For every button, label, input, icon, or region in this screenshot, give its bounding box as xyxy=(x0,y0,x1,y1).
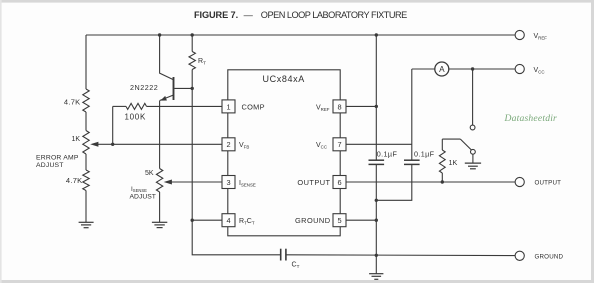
svg-text:4: 4 xyxy=(226,216,230,225)
wire pin 5 to V1 xyxy=(346,219,376,221)
svg-text:4.7K: 4.7K xyxy=(64,98,81,107)
switch S1 xyxy=(442,125,475,154)
svg-text:VREF: VREF xyxy=(316,104,330,112)
wire CT right to ground terminal xyxy=(286,254,515,257)
resistor R2 4.7K lower xyxy=(66,170,89,191)
svg-text:0.1µF: 0.1µF xyxy=(414,150,435,159)
resistor R1 4.7K upper xyxy=(64,89,89,112)
wire V1 upper xyxy=(375,35,377,160)
pin 6 box xyxy=(297,176,346,189)
svg-text:1: 1 xyxy=(226,102,230,111)
ground switch xyxy=(465,163,481,169)
svg-text:ISENSE: ISENSE xyxy=(239,180,256,188)
svg-text:FIGURE 7.: FIGURE 7. xyxy=(194,10,238,20)
wire switch lower to ground xyxy=(472,154,474,163)
wire VFB line to pin 2 xyxy=(113,143,222,145)
pin 8 box xyxy=(316,100,346,113)
node pin8-V1 junction xyxy=(375,105,378,108)
capacitor C1 0.1uF xyxy=(369,150,398,165)
svg-text:—: — xyxy=(244,10,254,20)
svg-text:5: 5 xyxy=(337,216,341,225)
transistor Q1 2N2222 xyxy=(130,77,174,101)
svg-text:VCC: VCC xyxy=(534,67,545,75)
svg-text:OPEN LOOP LABORATORY FIXTURE: OPEN LOOP LABORATORY FIXTURE xyxy=(261,10,407,20)
wire collector vertical xyxy=(160,35,174,80)
wire pin 8 to V1 xyxy=(346,105,376,107)
wire switch vertical xyxy=(472,69,474,125)
wire pin4 RTCT line xyxy=(192,219,222,221)
terminal VREF xyxy=(515,30,547,40)
svg-text:2N2222: 2N2222 xyxy=(130,83,158,92)
capacitor CT xyxy=(281,249,300,269)
wire 5K to ground xyxy=(159,192,161,222)
resistor R4 1K load xyxy=(439,150,457,173)
title FIGURE 7 xyxy=(194,10,407,20)
node RT-pin4 junction xyxy=(191,219,194,222)
svg-text:OUTPUT: OUTPUT xyxy=(297,178,330,187)
wire pin 7 to V2 xyxy=(346,143,412,145)
wire rail between pot and R2 xyxy=(85,154,87,170)
svg-text:VCC: VCC xyxy=(316,142,327,150)
terminal OUTPUT xyxy=(515,177,561,186)
wire V2 vertical xyxy=(411,69,413,160)
node rail-collector junction xyxy=(158,33,161,36)
svg-text:1K: 1K xyxy=(71,136,80,143)
svg-text:VFB: VFB xyxy=(239,142,249,150)
svg-text:3: 3 xyxy=(226,178,230,187)
wire COMP line xyxy=(113,105,126,107)
wire base to RT node xyxy=(174,87,192,89)
wire V2 lower return to V1 xyxy=(376,164,412,200)
pin 7 box xyxy=(316,138,346,151)
svg-text:ADJUST: ADJUST xyxy=(36,162,64,169)
wire VCC row left segment xyxy=(412,68,435,70)
svg-text:1K: 1K xyxy=(449,158,458,167)
svg-text:5K: 5K xyxy=(145,170,154,177)
node rail-V1 junction xyxy=(375,33,378,36)
wire V1 lower xyxy=(375,164,377,273)
ground bottom V1 xyxy=(369,274,383,280)
potentiometer 1K ERROR AMP ADJUST xyxy=(36,131,113,170)
svg-text:ERROR AMP: ERROR AMP xyxy=(36,155,79,162)
svg-text:2: 2 xyxy=(226,140,230,149)
svg-text:8: 8 xyxy=(337,102,341,111)
svg-text:RT: RT xyxy=(198,58,206,66)
svg-text:100K: 100K xyxy=(125,113,146,122)
wire RT bottom vertical down to pin4 line xyxy=(191,70,193,221)
svg-text:COMP: COMP xyxy=(242,102,265,111)
wire rail bottom to ground xyxy=(85,191,87,223)
pin 3 box xyxy=(222,176,256,189)
wire VCC row right segment xyxy=(449,68,515,70)
svg-text:RTCT: RTCT xyxy=(239,218,255,226)
wire pin 6 to OUTPUT terminal xyxy=(346,181,515,183)
svg-text:OUTPUT: OUTPUT xyxy=(535,180,562,187)
node 1K-output junction xyxy=(441,180,444,183)
wire 100K tap vertical xyxy=(112,106,114,144)
svg-text:GROUND: GROUND xyxy=(535,253,564,260)
resistor RT xyxy=(189,52,206,70)
wire 1K top xyxy=(441,139,443,150)
ammeter A1 xyxy=(435,62,449,76)
svg-text:A: A xyxy=(439,65,445,74)
svg-text:7: 7 xyxy=(337,140,341,149)
node rail-RT junction xyxy=(191,33,194,36)
node pin5-V1 junction xyxy=(375,219,378,222)
node 100K-wiper junction xyxy=(111,143,114,146)
wire CT left leg xyxy=(192,220,280,255)
wire rail between R1 and pot xyxy=(85,112,87,131)
pin 5 box xyxy=(295,214,346,227)
svg-text:ADJUST: ADJUST xyxy=(130,194,156,201)
svg-text:GROUND: GROUND xyxy=(295,216,331,225)
wire 1K bottom xyxy=(441,173,443,182)
svg-text:4.7K: 4.7K xyxy=(66,176,83,185)
IC U1 UCx84xA xyxy=(228,70,340,236)
capacitor C2 0.1uF xyxy=(404,150,435,165)
svg-text:ISENSE: ISENSE xyxy=(131,186,147,193)
terminal GROUND xyxy=(515,251,563,260)
node base-RT junction xyxy=(191,87,194,90)
node CT-line V1 junction xyxy=(375,254,378,257)
svg-text:VREF: VREF xyxy=(534,33,548,41)
node switch-VCC junction xyxy=(471,67,474,70)
wire emitter vertical xyxy=(159,100,161,168)
pin 1 box xyxy=(222,100,265,113)
svg-text:CT: CT xyxy=(292,262,300,270)
wire top VREF rail xyxy=(86,34,515,36)
terminal VCC xyxy=(515,64,544,74)
svg-text:Datasheetdir: Datasheetdir xyxy=(504,113,558,124)
wire RT top xyxy=(191,35,193,52)
node cap2 return junction xyxy=(375,199,378,202)
pin 4 box xyxy=(222,214,255,227)
svg-text:UCx84xA: UCx84xA xyxy=(263,74,305,84)
ground 5K xyxy=(152,222,167,227)
pin 2 box xyxy=(222,138,249,151)
potentiometer 5K ISENSE ADJUST xyxy=(130,169,223,201)
wire left rail top xyxy=(85,35,87,89)
svg-text:6: 6 xyxy=(337,178,341,187)
resistor R3 100K xyxy=(125,103,147,121)
wire COMP line right to pin 1 xyxy=(147,105,223,107)
svg-text:0.1µF: 0.1µF xyxy=(377,150,398,159)
ground left rail xyxy=(79,222,94,227)
